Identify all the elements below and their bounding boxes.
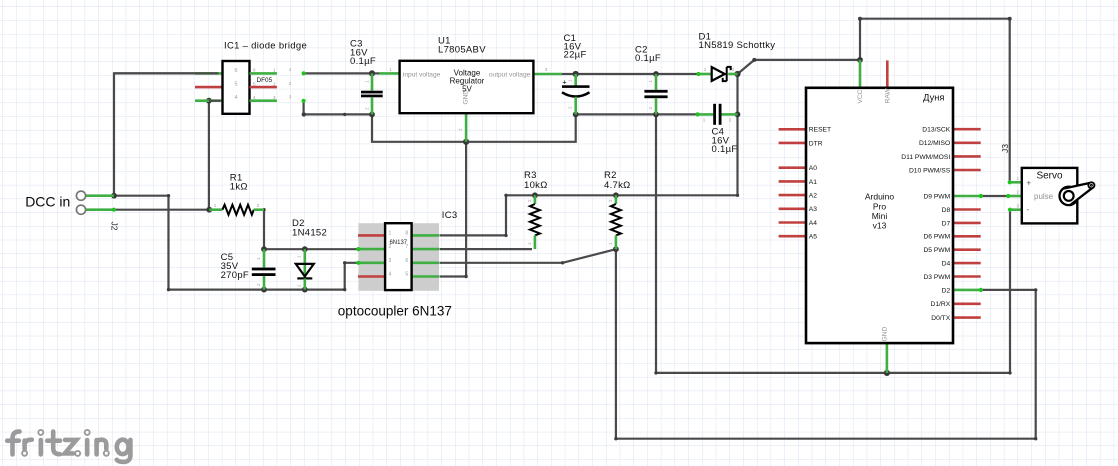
svg-text:1: 1: [1017, 176, 1020, 181]
svg-text:1: 1: [568, 79, 573, 82]
wire J2 pin2 to R1: [114, 209, 209, 211]
svg-text:3: 3: [389, 258, 392, 264]
wire regulator output to C1: [561, 73, 576, 75]
rings: [22, 430, 109, 456]
IC3 pin1 leg: [358, 234, 385, 237]
connector J2 DCC in: [25, 191, 119, 231]
svg-text:1: 1: [214, 203, 217, 208]
wire C1 to C2: [576, 73, 656, 75]
svg-text:pulse: pulse: [1034, 192, 1054, 201]
wire opto pin5 to GND rail: [440, 142, 467, 277]
svg-text:3: 3: [1017, 203, 1020, 208]
svg-text:D1/RX: D1/RX: [930, 301, 950, 308]
wire D1 node down to C4 node: [736, 74, 738, 114]
wire bridge out pin1 to C3: [304, 72, 372, 74]
IC3 highlight: [358, 223, 439, 291]
svg-text:4: 4: [389, 272, 392, 278]
wire bridge pin4 junction down to R1 node: [208, 101, 210, 210]
wire DCC node to bottom-left rail: [114, 196, 359, 290]
svg-text:A2: A2: [809, 193, 817, 200]
svg-text:2: 2: [608, 199, 613, 202]
svg-text:1: 1: [527, 242, 532, 245]
svg-text:8: 8: [405, 230, 408, 236]
svg-text:D7: D7: [942, 220, 951, 227]
wire R1 to C5/D2 node: [263, 210, 265, 250]
svg-text:D8: D8: [942, 207, 951, 214]
svg-text:3: 3: [545, 67, 548, 72]
servo body: [1022, 168, 1078, 224]
svg-text:input voltage: input voltage: [403, 71, 441, 78]
svg-text:5V: 5V: [462, 85, 472, 94]
svg-text:1: 1: [365, 80, 370, 83]
svg-text:D2: D2: [942, 287, 951, 294]
svg-text:5: 5: [235, 82, 238, 88]
svg-text:RAW: RAW: [884, 87, 891, 103]
GND leg: [886, 343, 889, 373]
wire C1 bottom to C2 bottom: [576, 113, 656, 115]
wire R2 node to D2 pin wire: [616, 249, 1036, 439]
wire 5V pull-up rail: [440, 195, 738, 235]
wire C2 to D1: [656, 73, 698, 75]
svg-text:2: 2: [729, 118, 732, 123]
optocoupler IC3: [338, 210, 458, 318]
svg-text:2: 2: [1017, 190, 1020, 195]
D2 leg: [953, 289, 981, 292]
svg-text:2: 2: [732, 67, 735, 72]
IC1 left pin6 leg: [195, 72, 223, 75]
svg-text:D13/SCK: D13/SCK: [922, 127, 950, 134]
svg-text:VCC: VCC: [857, 89, 864, 103]
letter i: [38, 440, 43, 454]
wire bridge out pin3 to C3 bottom: [304, 101, 372, 115]
svg-text:optocoupler 6N137: optocoupler 6N137: [338, 303, 452, 318]
svg-text:1: 1: [703, 118, 706, 123]
IC1 right pin legs: [250, 72, 277, 75]
resistor R3: [524, 170, 548, 249]
svg-text:1kΩ: 1kΩ: [230, 182, 248, 193]
resistor R2: [604, 170, 631, 249]
svg-text:1N5819 Schottky: 1N5819 Schottky: [699, 40, 776, 51]
letter r: [22, 441, 27, 450]
Arduino body: [806, 88, 953, 343]
bend points: [167, 17, 1038, 441]
IC3 pin2 leg: [358, 248, 385, 251]
svg-text:J3: J3: [1000, 144, 1010, 153]
svg-text:D3 PWM: D3 PWM: [923, 274, 950, 281]
resistor R1: [209, 173, 264, 215]
VCC leg: [859, 60, 862, 88]
svg-text:0.1µF: 0.1µF: [350, 56, 376, 67]
IC3 pin5 leg: [412, 275, 439, 278]
left pin legs: [779, 129, 806, 236]
IC3 pin8 leg: [412, 234, 439, 237]
svg-text:A1: A1: [809, 179, 817, 186]
svg-text:A5: A5: [809, 234, 817, 241]
svg-text:D11 PWM/MOSI: D11 PWM/MOSI: [901, 154, 950, 161]
svg-text:7: 7: [405, 244, 408, 250]
svg-text:2: 2: [389, 244, 392, 250]
svg-text:D4: D4: [942, 261, 951, 268]
IC3 pin4 leg: [358, 275, 385, 278]
U1 output leg: [533, 73, 562, 76]
letter i: [85, 440, 90, 454]
Arduino Pro Mini U-board: [779, 60, 983, 373]
svg-text:2: 2: [527, 199, 532, 202]
part name: [865, 192, 895, 231]
svg-text:D5 PWM: D5 PWM: [923, 247, 950, 254]
svg-text:Servo: Servo: [1036, 171, 1063, 182]
svg-text:Mini: Mini: [872, 211, 888, 221]
servo J3: [1000, 144, 1094, 224]
svg-text:A3: A3: [809, 206, 817, 213]
svg-text:3: 3: [289, 94, 292, 99]
svg-text:1N4152: 1N4152: [292, 227, 327, 238]
wire opto pin7 to R3: [440, 248, 533, 250]
IC1 left pin4 leg: [195, 99, 223, 102]
svg-text:2: 2: [648, 107, 653, 110]
servo pulse leg: [1008, 195, 1022, 198]
svg-text:2: 2: [568, 106, 573, 109]
U1 input leg: [379, 72, 400, 75]
RAW leg (unconnected): [886, 60, 889, 87]
svg-text:RESET: RESET: [809, 127, 831, 134]
D9 leg: [953, 195, 981, 198]
IC3 pin6 leg: [412, 261, 439, 264]
svg-text:6: 6: [235, 68, 238, 74]
capacitor C5: [221, 249, 276, 289]
svg-text:10kΩ: 10kΩ: [524, 180, 548, 191]
svg-text:1: 1: [389, 67, 392, 72]
svg-text:4: 4: [253, 95, 256, 100]
capacitor C2: [635, 44, 668, 114]
servo - leg: [1010, 208, 1022, 211]
svg-text:D10 PWM/SS: D10 PWM/SS: [909, 167, 951, 174]
wire opto pin6 to R2 bottom node: [440, 249, 616, 263]
wire C2 bottom to C4: [656, 113, 697, 115]
svg-text:-: -: [1027, 205, 1030, 214]
svg-text:5: 5: [405, 272, 408, 278]
svg-text:1: 1: [297, 255, 302, 258]
J2 pin2 leg: [86, 208, 114, 211]
svg-text:L7805ABV: L7805ABV: [438, 45, 486, 56]
svg-text:1: 1: [389, 230, 392, 236]
svg-text:D9 PWM: D9 PWM: [923, 193, 950, 200]
svg-text:J2: J2: [109, 222, 119, 231]
letter f: [13, 432, 20, 455]
svg-text:0.1µF: 0.1µF: [712, 144, 738, 155]
U1 body: [400, 61, 534, 113]
svg-text:4.7kΩ: 4.7kΩ: [604, 180, 631, 191]
svg-text:A4: A4: [809, 220, 817, 227]
IC1 left pin5 leg (unconnected): [195, 86, 223, 89]
svg-text:D6 PWM: D6 PWM: [923, 234, 950, 241]
svg-text:DTR: DTR: [809, 140, 823, 147]
fritzing watermark: [7, 430, 130, 462]
IC3 pin3 leg: [358, 261, 385, 264]
voltage regulator U1: [379, 36, 562, 142]
svg-text:2: 2: [256, 283, 261, 286]
svg-text:6: 6: [253, 68, 256, 73]
wire C2 bottom down to servo GND rail: [656, 114, 1010, 373]
svg-text:6: 6: [405, 258, 408, 264]
svg-text:Pro: Pro: [873, 201, 887, 211]
J2 pin2 terminal: [76, 205, 85, 214]
diode D2 1N4152: [292, 218, 327, 289]
servo horn: [1060, 187, 1078, 205]
capacitor C1 electrolytic: [562, 33, 590, 114]
J2 pin1 leg: [86, 194, 114, 197]
svg-text:1: 1: [704, 67, 707, 72]
svg-text:270pF: 270pF: [221, 270, 249, 281]
wire D1 cathode to VCC rail: [738, 19, 1010, 183]
svg-text:+: +: [1027, 179, 1032, 188]
right pin names: [901, 127, 950, 322]
capacitor C4: [695, 104, 737, 155]
wire C3 to regulator input: [372, 72, 381, 74]
letter z: [65, 440, 77, 454]
wire C5 node to opto pin2: [264, 248, 359, 250]
IC1 body: [223, 61, 250, 114]
svg-text:D12/MISO: D12/MISO: [919, 140, 950, 147]
svg-text:Arduino: Arduino: [865, 192, 895, 202]
wire Arduino D9 to servo pulse: [981, 195, 1008, 197]
letter g: [117, 440, 129, 454]
svg-text:Дуня: Дуня: [923, 93, 944, 103]
left pin names: [809, 127, 831, 241]
svg-text:A0: A0: [809, 165, 817, 172]
right pin legs: [953, 129, 981, 317]
svg-text:1: 1: [608, 242, 613, 245]
svg-text:4: 4: [235, 95, 238, 101]
svg-text:DCC in: DCC in: [25, 194, 70, 210]
svg-text:22µF: 22µF: [564, 49, 587, 60]
diode D1 Schottky: [696, 32, 775, 82]
wire C3 bottom to GND rail: [372, 114, 576, 141]
IC3 pin7 leg: [412, 248, 439, 251]
servo + leg: [1010, 181, 1022, 184]
letter n: [94, 440, 99, 454]
svg-text:D0/TX: D0/TX: [931, 315, 950, 322]
svg-text:3: 3: [273, 95, 276, 100]
svg-text:IC1 – diode bridge: IC1 – diode bridge: [224, 41, 307, 52]
svg-text:2: 2: [289, 81, 292, 86]
letter t: [53, 432, 60, 455]
svg-text:1: 1: [256, 257, 261, 260]
svg-text:0.1µF: 0.1µF: [635, 53, 661, 64]
svg-text:v13: v13: [873, 221, 887, 231]
svg-text:2: 2: [273, 81, 276, 86]
svg-text:2: 2: [257, 203, 260, 208]
svg-text:GND: GND: [882, 326, 889, 341]
svg-text:2: 2: [297, 284, 302, 287]
svg-text:1: 1: [273, 68, 276, 73]
wire bridge pin4 overlay: [209, 100, 222, 102]
svg-text:1: 1: [648, 80, 653, 83]
diode bridge IC1: [114, 41, 307, 114]
svg-text:2: 2: [365, 107, 370, 110]
J2 pin1 terminal: [76, 191, 85, 200]
svg-text:output voltage: output voltage: [489, 71, 531, 78]
svg-text:2: 2: [458, 128, 463, 131]
IC3 body: [385, 223, 412, 290]
svg-text:IC3: IC3: [442, 210, 458, 221]
wire DCC-in to bridge pin6: [114, 73, 217, 195]
svg-text:1: 1: [289, 67, 292, 72]
wire C4 node down to pull-up rail: [736, 114, 738, 195]
U1 GND leg: [465, 113, 468, 142]
capacitor C3: [350, 39, 383, 115]
svg-text:DF05: DF05: [257, 77, 273, 84]
